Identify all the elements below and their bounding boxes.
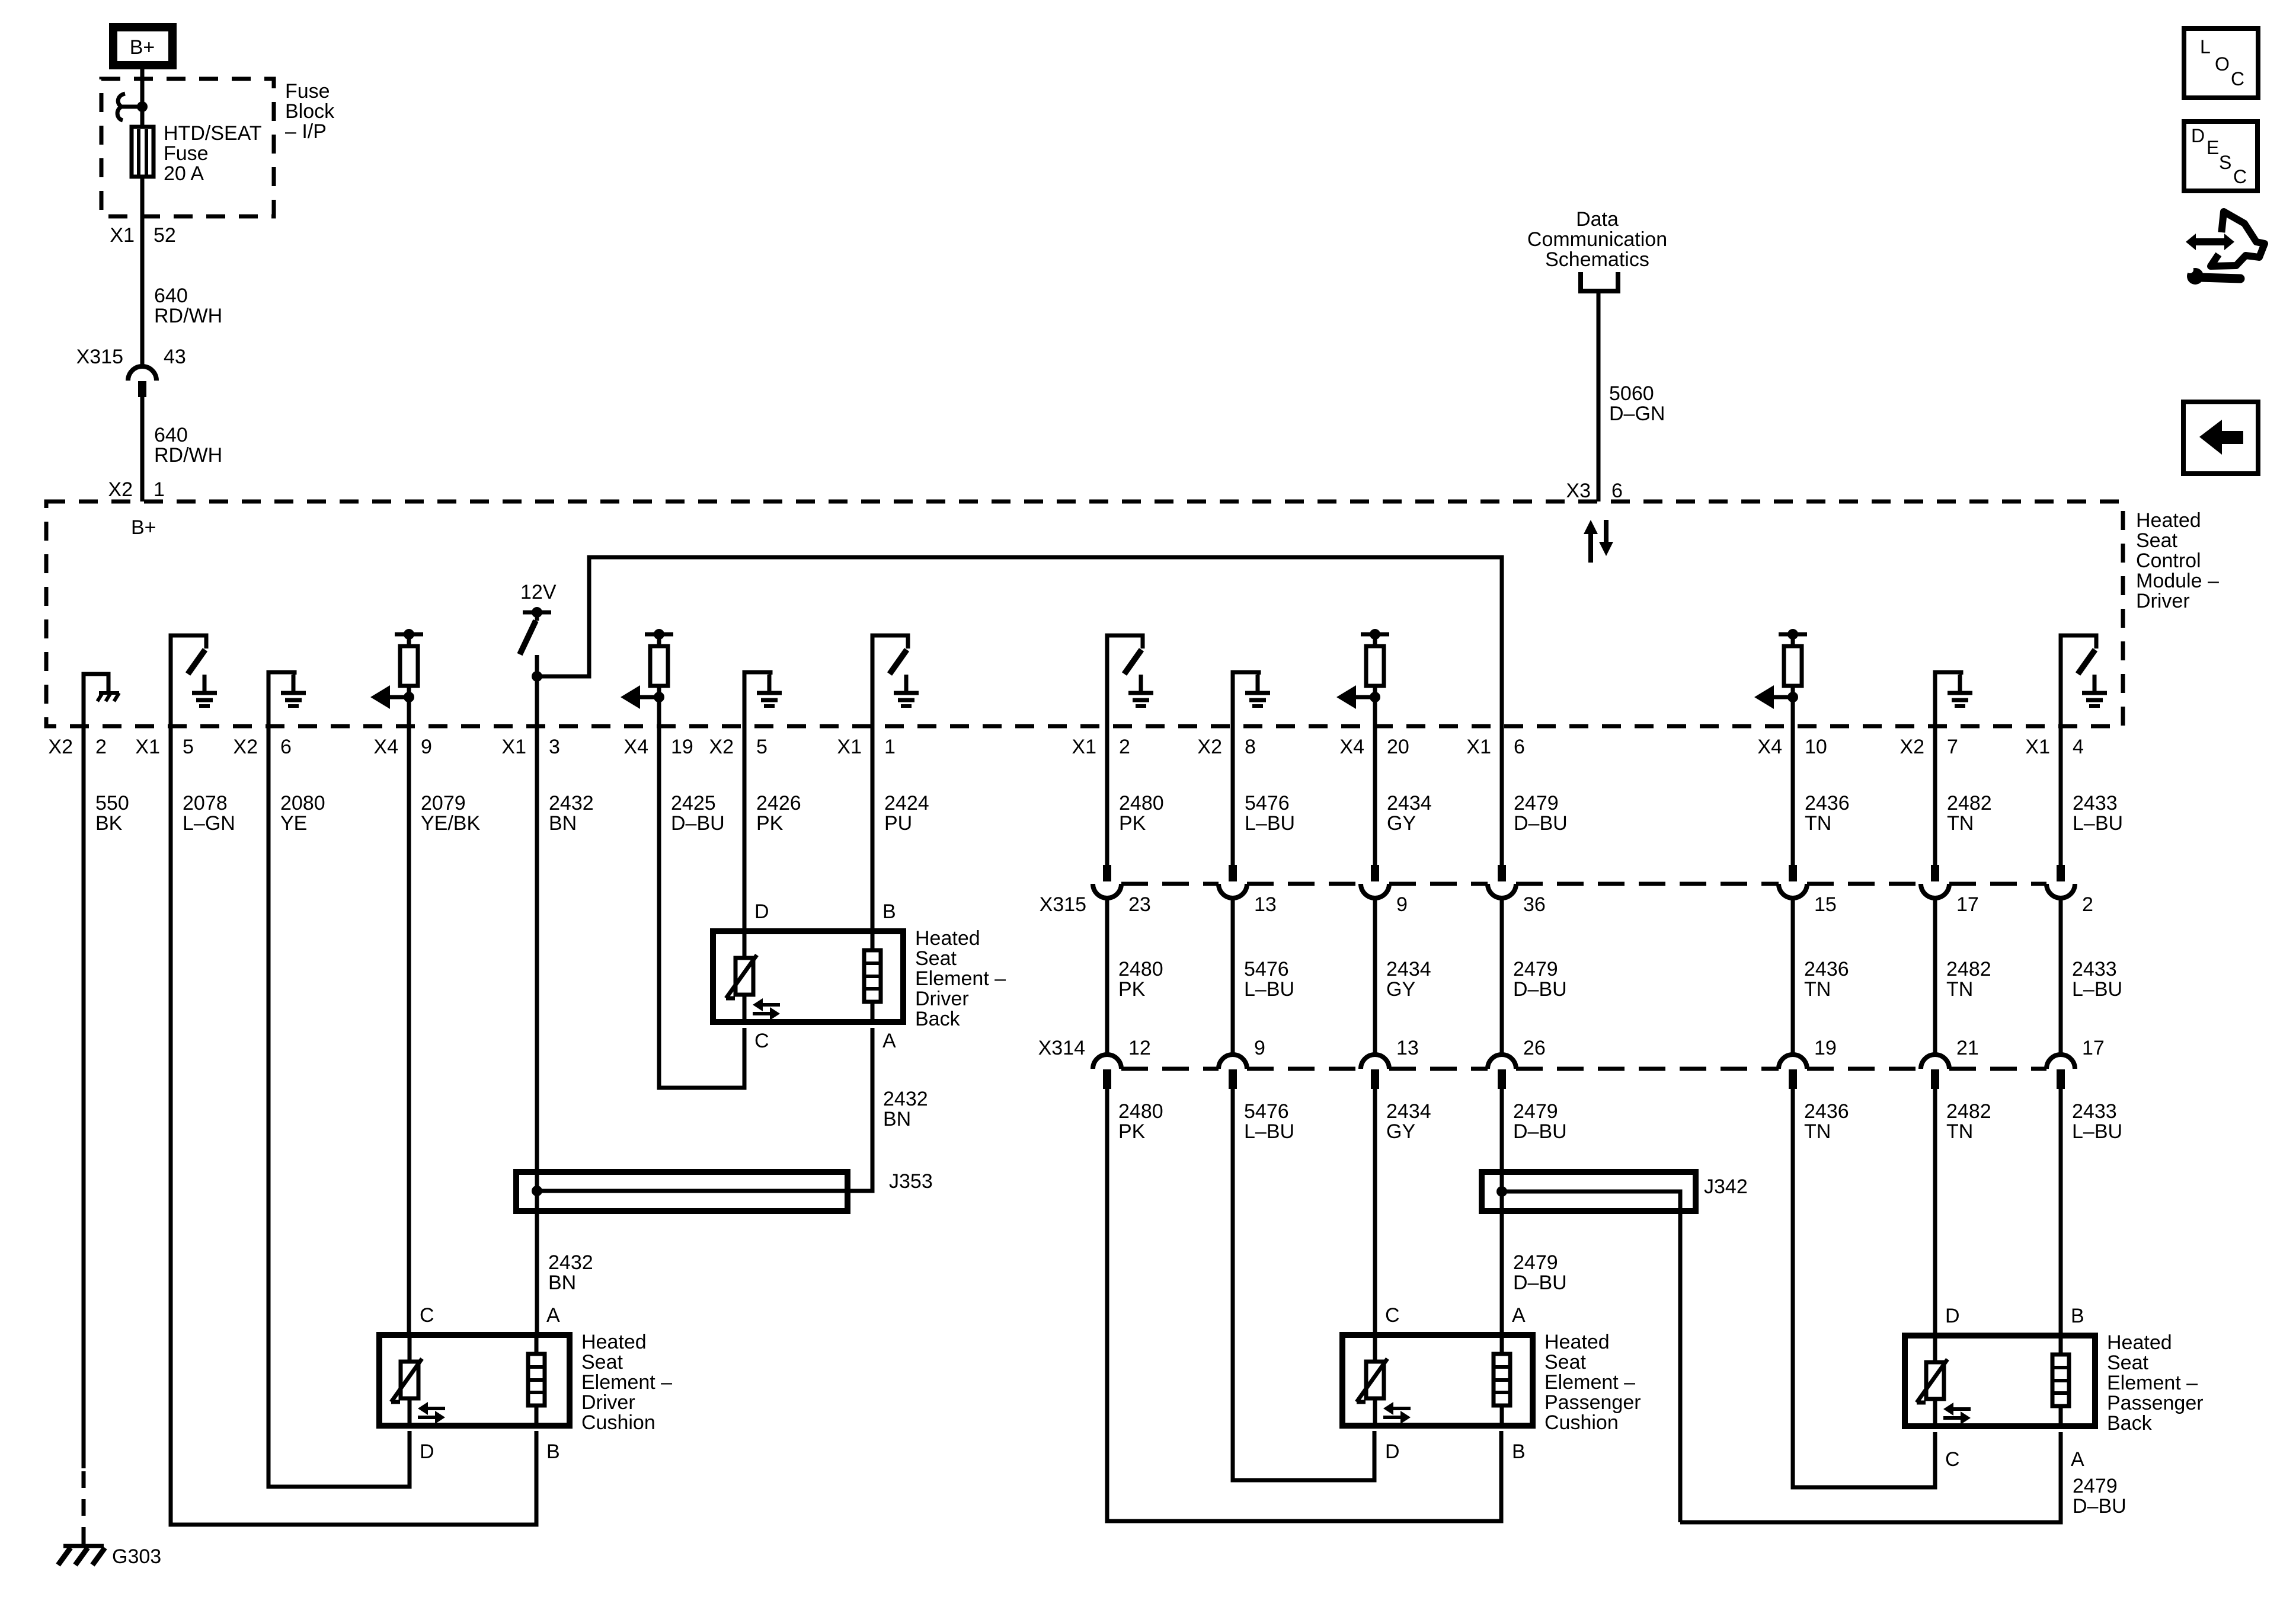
svg-text:A: A [2071, 1448, 2084, 1471]
svg-text:2479: 2479 [1513, 1100, 1558, 1123]
svg-text:43: 43 [164, 346, 186, 368]
svg-text:2426: 2426 [756, 792, 801, 814]
wire 2436 TN between connectors [1791, 898, 1795, 1055]
svg-text:C: C [754, 1030, 769, 1052]
heated seat element passenger back right pin wire [2059, 1336, 2063, 1355]
heated seat element driver back temp arrows [761, 1003, 780, 1007]
svg-text:Fuse: Fuse [164, 142, 209, 165]
svg-text:B: B [882, 900, 896, 923]
svg-text:2434: 2434 [1386, 958, 1431, 980]
svg-text:BN: BN [549, 812, 577, 835]
sensor resistor with arrow (pin X4-10) [1779, 632, 1807, 637]
svg-text:X1: X1 [110, 224, 135, 247]
svg-text:23: 23 [1128, 893, 1151, 916]
switch to ground (pin X1-1) [872, 635, 908, 726]
svg-text:D: D [754, 900, 769, 923]
svg-text:Back: Back [2107, 1412, 2153, 1435]
svg-text:Heated: Heated [581, 1331, 647, 1353]
back-arrow icon box [2183, 402, 2258, 474]
svg-text:Seat: Seat [1544, 1351, 1586, 1373]
svg-text:6: 6 [280, 736, 292, 758]
svg-text:52: 52 [154, 224, 176, 247]
svg-text:Driver: Driver [581, 1391, 635, 1414]
svg-text:D–BU: D–BU [671, 812, 725, 835]
svg-text:X4: X4 [1757, 736, 1782, 758]
svg-text:TN: TN [1946, 1120, 1973, 1143]
wire 2432 BN module to J353 and driver cushion A [535, 726, 539, 1335]
svg-text:GY: GY [1386, 978, 1415, 1001]
ground (pin X2-8) [1233, 672, 1259, 726]
svg-text:L–BU: L–BU [1244, 978, 1294, 1001]
heated seat element driver cushion box [379, 1335, 570, 1426]
heated seat element passenger back box [1905, 1336, 2095, 1426]
svg-text:Heated: Heated [915, 927, 980, 950]
svg-text:15: 15 [1814, 893, 1837, 916]
heated seat element passenger cushion temp arrows [1392, 1407, 1411, 1410]
connector X315 dashed line [1121, 882, 1219, 886]
svg-text:Element –: Element – [915, 967, 1006, 990]
svg-text:TN: TN [1804, 1120, 1831, 1143]
svg-text:5476: 5476 [1245, 792, 1290, 814]
svg-text:BN: BN [883, 1108, 911, 1130]
svg-text:5: 5 [756, 736, 768, 758]
svg-text:2480: 2480 [1119, 792, 1164, 814]
DESC icon box [2184, 122, 2257, 191]
chassis ground (pin X2-2) [84, 674, 108, 726]
X314 connector terminal pin 9 (wire 5476) [1219, 1055, 1247, 1069]
svg-text:Passenger: Passenger [2107, 1392, 2204, 1414]
svg-text:PK: PK [1118, 1120, 1146, 1143]
svg-text:2425: 2425 [671, 792, 716, 814]
wire 640 RD/WH upper segment [140, 216, 145, 366]
wire 2479 D-BU J342 branch to passenger back A [1680, 1432, 2061, 1522]
heated seat element passenger back heating element [2052, 1355, 2069, 1406]
svg-text:X4: X4 [1339, 736, 1364, 758]
svg-text:Heated: Heated [1544, 1331, 1610, 1353]
svg-text:L–BU: L–BU [2072, 1120, 2122, 1143]
svg-text:Fuse: Fuse [285, 80, 330, 103]
svg-text:2432: 2432 [548, 1251, 593, 1274]
svg-text:PK: PK [1119, 812, 1146, 835]
wire 2432 BN driver back A to J353 [538, 1028, 872, 1191]
svg-text:X2: X2 [48, 736, 73, 758]
svg-text:X4: X4 [373, 736, 398, 758]
svg-text:Seat: Seat [2107, 1352, 2148, 1374]
svg-text:X4: X4 [623, 736, 648, 758]
svg-text:9: 9 [1254, 1037, 1265, 1059]
heated seat element passenger cushion thermistor [1366, 1362, 1384, 1398]
svg-text:Passenger: Passenger [1544, 1391, 1641, 1414]
heated seat element driver cushion heating element [528, 1354, 545, 1405]
svg-text:YE/BK: YE/BK [421, 812, 480, 835]
svg-text:1: 1 [154, 478, 165, 501]
svg-text:X1: X1 [135, 736, 160, 758]
svg-text:C: C [420, 1304, 434, 1327]
svg-text:Seat: Seat [2136, 529, 2177, 552]
svg-text:PK: PK [1118, 978, 1146, 1001]
svg-text:D–BU: D–BU [2073, 1495, 2126, 1518]
svg-text:640: 640 [154, 285, 188, 307]
heated seat element passenger cushion heating element [1494, 1354, 1510, 1405]
svg-text:550: 550 [95, 792, 129, 814]
wire 2078 L-GN to driver cushion B [171, 726, 536, 1525]
wire B+ to fuse block [140, 69, 145, 127]
svg-text:640: 640 [154, 424, 188, 446]
wire 550 BK (solid part) [82, 726, 86, 1468]
svg-text:2: 2 [95, 736, 107, 758]
svg-text:2479: 2479 [2073, 1475, 2118, 1497]
svg-text:J342: J342 [1704, 1175, 1748, 1198]
svg-text:19: 19 [671, 736, 693, 758]
svg-text:Module –: Module – [2136, 570, 2219, 592]
svg-text:X2: X2 [233, 736, 258, 758]
wire 2479 D–BU between connectors [1500, 898, 1504, 1055]
svg-text:17: 17 [1956, 893, 1979, 916]
splice J342 [1482, 1172, 1696, 1211]
svg-text:TN: TN [1804, 978, 1831, 1001]
svg-text:B+: B+ [131, 516, 156, 539]
wire 2480 PK between connectors [1105, 898, 1109, 1055]
svg-text:3: 3 [549, 736, 560, 758]
svg-text:PK: PK [756, 812, 784, 835]
X315 connector terminal pin 15 (wire 2436) [1791, 726, 1795, 865]
wire 2424 PU to driver back B [871, 726, 875, 931]
heated seat element driver back right pin wire [871, 931, 875, 950]
wire 2434 GY between connectors [1373, 898, 1377, 1055]
wire 2480 PK to passenger cushion B [1107, 1089, 1501, 1521]
heated seat element passenger cushion left pin wire [1373, 1335, 1377, 1362]
heated seat element driver cushion left pin wire [408, 1335, 412, 1362]
svg-text:D–BU: D–BU [1513, 1272, 1567, 1294]
svg-text:D: D [1385, 1440, 1400, 1463]
svg-text:A: A [882, 1030, 896, 1052]
X315 connector terminal pin 17 (wire 2482) [1933, 726, 1937, 865]
X314 connector terminal pin 17 (wire 2433) [2046, 1055, 2075, 1069]
svg-text:O: O [2215, 53, 2230, 75]
svg-text:10: 10 [1805, 736, 1827, 758]
svg-text:D–BU: D–BU [1514, 812, 1568, 835]
svg-text:2479: 2479 [1514, 792, 1559, 814]
wire 2482 TN to passenger back D [1933, 1089, 1937, 1336]
sensor resistor with arrow (pin X4-19) [645, 632, 673, 637]
wire 2436 TN to passenger back C [1793, 1089, 1935, 1487]
wire 5060 D-GN [1597, 291, 1601, 501]
wire 2479 D-BU to J342 and passenger cushion A [1500, 1089, 1504, 1335]
in-line connector X315-43 [128, 366, 156, 381]
Heated Seat Control Module - Driver dashed outline [46, 501, 2123, 726]
svg-text:– I/P: – I/P [285, 120, 327, 143]
svg-text:5476: 5476 [1244, 1100, 1289, 1123]
svg-text:X315: X315 [76, 346, 123, 368]
heated seat element driver cushion thermistor [401, 1362, 418, 1398]
serial data arrows [1584, 520, 1598, 563]
svg-text:E: E [2207, 137, 2219, 158]
svg-text:Heated: Heated [2107, 1331, 2172, 1354]
svg-text:Driver: Driver [2136, 590, 2190, 612]
svg-text:G303: G303 [112, 1545, 161, 1568]
svg-text:12: 12 [1128, 1037, 1151, 1059]
svg-text:Driver: Driver [915, 988, 969, 1010]
heated seat element passenger back thermistor [1926, 1362, 1944, 1399]
svg-text:TN: TN [1946, 978, 1973, 1001]
heated seat element passenger cushion right pin wire [1500, 1335, 1504, 1354]
wire 2433 L-BU to passenger back B [2059, 1089, 2063, 1336]
off-page bracket [1581, 272, 1618, 291]
X315 connector terminal pin 23 (wire 2480) [1105, 726, 1109, 865]
heated seat element passenger back left pin wire [1933, 1336, 1937, 1362]
svg-text:Back: Back [915, 1008, 961, 1030]
svg-text:X2: X2 [108, 478, 133, 501]
svg-text:D–BU: D–BU [1513, 1120, 1567, 1143]
wire 550 BK (dashed continuation) [82, 1471, 86, 1547]
svg-text:B: B [2071, 1305, 2084, 1327]
svg-text:Communication: Communication [1527, 228, 1667, 251]
wire 2482 TN between connectors [1933, 898, 1937, 1055]
svg-text:L–BU: L–BU [1244, 1120, 1294, 1143]
wire 2080 YE to driver cushion D [268, 726, 410, 1487]
svg-text:C: C [1385, 1304, 1400, 1327]
svg-text:BK: BK [95, 812, 123, 835]
X315 connector terminal pin 9 (wire 2434) [1373, 726, 1377, 865]
svg-text:X1: X1 [501, 736, 526, 758]
switch to ground (pin X1-4) [2061, 635, 2096, 726]
svg-text:2482: 2482 [1947, 792, 1992, 814]
svg-text:L–BU: L–BU [2072, 978, 2122, 1001]
svg-text:2080: 2080 [280, 792, 325, 814]
svg-text:HTD/SEAT: HTD/SEAT [164, 122, 262, 145]
svg-text:2: 2 [2082, 893, 2093, 916]
svg-text:X2: X2 [709, 736, 734, 758]
ground (pin X2-7) [1935, 672, 1961, 726]
svg-text:8: 8 [1245, 736, 1256, 758]
wire 5476 L-BU to passenger cushion D [1233, 1089, 1374, 1480]
svg-text:2079: 2079 [421, 792, 466, 814]
B+ power symbol box [113, 27, 172, 65]
wrench icon [2187, 268, 2204, 285]
svg-text:Seat: Seat [581, 1351, 623, 1373]
svg-text:X1: X1 [1466, 736, 1491, 758]
svg-text:6: 6 [1514, 736, 1525, 758]
svg-text:13: 13 [1254, 893, 1277, 916]
X314 connector terminal pin 26 (wire 2479) [1488, 1055, 1516, 1069]
svg-text:J353: J353 [889, 1170, 933, 1193]
svg-text:X2: X2 [1197, 736, 1222, 758]
svg-text:2078: 2078 [183, 792, 228, 814]
svg-text:9: 9 [421, 736, 432, 758]
junction dot at fuse feed [137, 101, 148, 112]
svg-text:2479: 2479 [1513, 958, 1558, 980]
svg-text:A: A [546, 1304, 560, 1327]
svg-text:C: C [1945, 1448, 1960, 1471]
svg-text:BN: BN [548, 1272, 576, 1294]
svg-text:9: 9 [1396, 893, 1408, 916]
svg-text:7: 7 [1947, 736, 1958, 758]
X315 connector terminal pin 2 (wire 2433) [2059, 726, 2063, 865]
wire 2079 YE/BK to driver cushion C [407, 726, 411, 1335]
svg-text:X2: X2 [1900, 736, 1924, 758]
svg-text:Element –: Element – [2107, 1372, 2198, 1394]
switch to ground (pin X1-5) [171, 635, 206, 726]
X315 connector terminal pin 36 (wire 2479) [1500, 726, 1504, 865]
heated seat element driver back box [713, 931, 903, 1022]
X314 connector terminal pin 13 (wire 2434) [1361, 1055, 1389, 1069]
heated seat element passenger back temp arrows [1952, 1407, 1971, 1411]
internal wire 12V to pin X1-6 [537, 557, 1502, 726]
switch to ground (pin X1-2) [1107, 635, 1143, 726]
heated seat element driver cushion temp arrows [426, 1407, 445, 1410]
svg-text:L: L [2200, 36, 2211, 57]
svg-text:5060: 5060 [1609, 382, 1654, 405]
svg-text:2433: 2433 [2072, 958, 2117, 980]
svg-text:Element –: Element – [581, 1371, 672, 1394]
svg-text:X1: X1 [1072, 736, 1096, 758]
svg-text:X1: X1 [2025, 736, 2050, 758]
svg-text:C: C [2233, 166, 2247, 187]
svg-text:Schematics: Schematics [1545, 248, 1649, 271]
svg-text:20 A: 20 A [164, 162, 204, 185]
X315 connector terminal pin 13 (wire 5476) [1231, 726, 1235, 865]
svg-text:GY: GY [1386, 1120, 1415, 1143]
X314 connector terminal pin 21 (wire 2482) [1921, 1055, 1949, 1069]
svg-text:2434: 2434 [1386, 1100, 1431, 1123]
svg-text:2432: 2432 [883, 1088, 928, 1110]
X314 connector terminal pin 19 (wire 2436) [1779, 1055, 1807, 1069]
svg-text:L–BU: L–BU [1245, 812, 1295, 835]
heated seat element passenger cushion box [1342, 1335, 1533, 1426]
svg-text:2436: 2436 [1804, 1100, 1849, 1123]
svg-text:YE: YE [280, 812, 307, 835]
diagnostic icon (arrow through connector) [2186, 234, 2234, 250]
svg-text:RD/WH: RD/WH [154, 305, 222, 327]
heated seat element driver back left pin wire [743, 931, 747, 958]
svg-text:Block: Block [285, 100, 335, 123]
svg-text:B: B [546, 1440, 560, 1463]
svg-text:5: 5 [183, 736, 194, 758]
svg-text:2436: 2436 [1805, 792, 1850, 814]
fuse block dashed outline (Fuse Block - I/P) [101, 79, 274, 216]
svg-text:TN: TN [1947, 812, 1974, 835]
svg-text:5476: 5476 [1244, 958, 1289, 980]
svg-text:Heated: Heated [2136, 509, 2201, 532]
svg-text:Control: Control [2136, 550, 2201, 572]
svg-text:X3: X3 [1566, 480, 1591, 502]
svg-text:B+: B+ [130, 36, 155, 59]
svg-text:D: D [2191, 125, 2205, 146]
wire 640 RD/WH lower segment [140, 397, 145, 501]
svg-text:X315: X315 [1040, 893, 1086, 916]
connector X314 dashed line [1121, 1067, 1219, 1071]
svg-text:4: 4 [2073, 736, 2084, 758]
svg-text:D–GN: D–GN [1609, 402, 1665, 425]
svg-text:2: 2 [1119, 736, 1130, 758]
wire 5476 L–BU between connectors [1231, 898, 1235, 1055]
fuse HTD/SEAT 20A [132, 127, 154, 177]
svg-text:2432: 2432 [549, 792, 594, 814]
svg-text:D: D [420, 1440, 434, 1463]
heated seat element driver cushion right pin wire [535, 1335, 539, 1354]
svg-text:B: B [1512, 1440, 1526, 1463]
svg-text:S: S [2219, 152, 2231, 173]
heated seat element driver back thermistor [736, 958, 753, 995]
svg-text:2482: 2482 [1946, 1100, 1991, 1123]
svg-text:RD/WH: RD/WH [154, 444, 222, 467]
svg-text:19: 19 [1814, 1037, 1837, 1059]
svg-text:2436: 2436 [1804, 958, 1849, 980]
svg-text:TN: TN [1805, 812, 1831, 835]
svg-text:L–BU: L–BU [2073, 812, 2123, 835]
ground (pin X2-6) [268, 672, 295, 726]
wire fuse to X1-52 [140, 177, 145, 216]
svg-text:X1: X1 [837, 736, 862, 758]
svg-text:2480: 2480 [1118, 958, 1163, 980]
svg-text:C: C [2231, 68, 2244, 90]
heated seat element driver back heating element [864, 950, 881, 1002]
svg-text:D–BU: D–BU [1513, 978, 1567, 1001]
svg-text:Cushion: Cushion [581, 1411, 655, 1434]
svg-text:1: 1 [884, 736, 896, 758]
wire 2426 PK to driver back D [743, 726, 747, 931]
wire 2425 D-BU to driver back C [659, 726, 744, 1088]
sensor resistor with arrow (pin X4-9) [395, 632, 423, 637]
svg-text:GY: GY [1387, 812, 1416, 835]
svg-text:X314: X314 [1038, 1037, 1085, 1059]
svg-text:2433: 2433 [2072, 1100, 2117, 1123]
svg-text:A: A [1512, 1304, 1526, 1327]
svg-text:6: 6 [1611, 480, 1623, 502]
bus clip symbol in fuse block [117, 94, 125, 120]
svg-text:Element –: Element – [1544, 1371, 1635, 1394]
svg-text:2479: 2479 [1513, 1251, 1558, 1274]
wire 2433 L–BU between connectors [2059, 898, 2063, 1055]
svg-text:Data: Data [1576, 208, 1619, 231]
svg-text:PU: PU [884, 812, 912, 835]
svg-text:17: 17 [2082, 1037, 2105, 1059]
svg-text:20: 20 [1387, 736, 1409, 758]
svg-text:L–GN: L–GN [183, 812, 235, 835]
svg-text:21: 21 [1956, 1037, 1979, 1059]
svg-text:12V: 12V [520, 581, 557, 603]
LOC icon box [2184, 28, 2258, 98]
svg-text:2424: 2424 [884, 792, 929, 814]
svg-text:2480: 2480 [1118, 1100, 1163, 1123]
svg-text:Cushion: Cushion [1544, 1411, 1619, 1434]
svg-text:2433: 2433 [2073, 792, 2118, 814]
splice J353 [516, 1172, 848, 1211]
ground G303 [82, 1537, 86, 1545]
svg-text:36: 36 [1523, 893, 1546, 916]
wire 2434 GY to passenger cushion C [1373, 1089, 1377, 1335]
X314 connector terminal pin 12 (wire 2480) [1093, 1055, 1121, 1069]
svg-text:2482: 2482 [1946, 958, 1991, 980]
ground (pin X2-5) [744, 672, 770, 726]
svg-text:Seat: Seat [915, 947, 957, 970]
sensor resistor with arrow (pin X4-20) [1361, 632, 1389, 637]
svg-text:13: 13 [1396, 1037, 1419, 1059]
svg-text:2434: 2434 [1387, 792, 1432, 814]
svg-text:D: D [1945, 1305, 1960, 1327]
svg-text:26: 26 [1523, 1037, 1546, 1059]
